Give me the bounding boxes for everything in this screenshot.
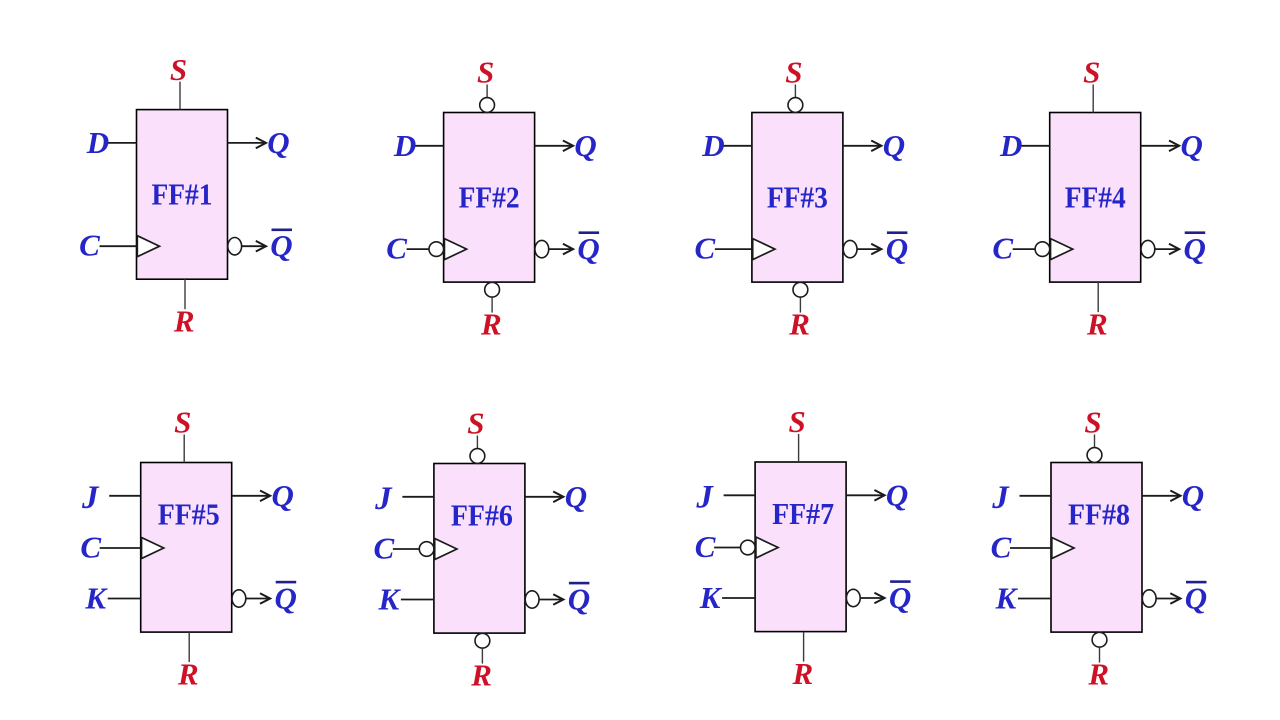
svg-text:Q: Q — [565, 479, 587, 514]
FF#4 Q-bar output bubble — [1141, 240, 1155, 257]
FF#1 C clock input wire — [100, 245, 137, 247]
svg-text:J: J — [374, 481, 393, 517]
FF#7 Q-bar output wire — [860, 597, 883, 599]
FF#1 Q-bar overline — [272, 229, 293, 232]
svg-text:J: J — [991, 480, 1010, 516]
svg-text:Q: Q — [1184, 231, 1206, 266]
flip-flop FF#6 body — [434, 464, 525, 634]
FF#1 Q output arrowhead — [256, 138, 266, 149]
FF#7 S preset input wire — [798, 434, 800, 462]
svg-text:S: S — [788, 404, 805, 439]
svg-text:S: S — [1083, 55, 1100, 90]
FF#5 C clock input wire — [100, 547, 141, 549]
FF#3 S active-low bubble — [788, 98, 803, 113]
FF#3 S preset input wire — [794, 85, 796, 98]
FF#2 Q-bar output arrowhead — [563, 244, 573, 255]
svg-text:S: S — [785, 55, 802, 90]
FF#2 S active-low bubble — [480, 98, 495, 113]
FF#4 Q-bar output arrowhead — [1169, 244, 1179, 255]
FF#6 Q output arrowhead — [553, 492, 563, 503]
FF#2 C clock input wire — [407, 248, 429, 250]
svg-text:S: S — [467, 406, 484, 441]
svg-text:FF#3: FF#3 — [767, 180, 828, 215]
FF#8 S preset input wire — [1094, 435, 1096, 448]
FF#2 R active-low bubble — [485, 282, 500, 297]
svg-text:S: S — [477, 55, 494, 90]
FF#1 Q-bar output bubble — [228, 238, 242, 255]
FF#2 D input wire — [413, 145, 444, 147]
svg-text:J: J — [81, 480, 100, 516]
svg-text:Q: Q — [1182, 478, 1204, 513]
svg-text:R: R — [470, 657, 492, 692]
svg-text:R: R — [791, 656, 813, 691]
svg-text:Q: Q — [568, 582, 590, 617]
FF#3 Q-bar output arrowhead — [871, 244, 881, 255]
svg-text:J: J — [695, 479, 714, 515]
FF#3 R active-low bubble — [793, 282, 808, 297]
FF#7 Q-bar output arrowhead — [874, 593, 884, 604]
FF#2 S preset input wire — [486, 85, 488, 98]
FF#8 S active-low bubble — [1087, 448, 1102, 463]
svg-text:Q: Q — [889, 580, 911, 615]
svg-text:Q: Q — [574, 128, 596, 163]
FF#6 Q-bar output bubble — [525, 591, 539, 608]
FF#4 C clock input wire — [1013, 248, 1035, 250]
FF#3 Q output wire — [843, 145, 880, 147]
FF#4 C active-low bubble — [1035, 242, 1050, 257]
FF#8 Q output arrowhead — [1170, 491, 1180, 502]
FF#8 K input wire — [1018, 598, 1051, 600]
svg-text:C: C — [992, 230, 1013, 265]
FF#2 Q-bar overline — [579, 231, 600, 234]
FF#4 S preset input wire — [1092, 85, 1094, 113]
FF#5 Q-bar output arrowhead — [260, 593, 270, 604]
svg-text:Q: Q — [883, 128, 905, 163]
FF#3 Q-bar overline — [887, 231, 908, 234]
FF#7 C active-low bubble — [741, 540, 756, 555]
FF#1 Q output wire — [228, 142, 265, 144]
FF#4 D input wire — [1019, 145, 1050, 147]
FF#6 Q-bar output wire — [539, 599, 562, 601]
FF#5 S preset input wire — [183, 435, 185, 463]
FF#3 Q-bar output wire — [857, 248, 880, 250]
FF#3 clock edge triangle — [753, 239, 775, 260]
FF#1 clock edge triangle — [137, 236, 159, 257]
svg-text:C: C — [80, 529, 101, 564]
svg-text:Q: Q — [267, 125, 289, 160]
FF#2 Q-bar output wire — [549, 248, 572, 250]
svg-text:C: C — [695, 230, 716, 265]
svg-text:Q: Q — [577, 231, 599, 266]
FF#8 Q-bar output arrowhead — [1170, 593, 1180, 604]
FF#5 R reset input wire — [188, 632, 190, 662]
FF#3 C clock input wire — [715, 248, 752, 250]
FF#2 C active-low bubble — [429, 242, 444, 257]
FF#1 S preset input wire — [179, 82, 181, 110]
svg-text:C: C — [374, 530, 395, 565]
svg-text:D: D — [701, 128, 724, 163]
FF#8 clock edge triangle — [1052, 538, 1074, 559]
FF#7 K input wire — [722, 597, 755, 599]
FF#8 Q-bar output wire — [1156, 598, 1179, 600]
svg-text:D: D — [86, 125, 109, 160]
FF#6 K input wire — [401, 599, 434, 601]
svg-text:R: R — [177, 656, 199, 691]
FF#7 J input wire — [724, 494, 756, 496]
svg-text:Q: Q — [1181, 128, 1203, 163]
svg-text:K: K — [995, 581, 1019, 616]
FF#3 D input wire — [721, 145, 752, 147]
svg-text:Q: Q — [270, 228, 292, 263]
flip-flop FF#2 body — [444, 113, 535, 283]
flip-flop FF#8 body — [1051, 463, 1142, 633]
FF#6 Q-bar overline — [569, 582, 590, 585]
FF#6 S active-low bubble — [470, 449, 485, 464]
svg-text:Q: Q — [272, 478, 294, 513]
svg-text:Q: Q — [275, 581, 297, 616]
svg-text:C: C — [695, 529, 716, 564]
FF#6 S preset input wire — [476, 436, 478, 449]
FF#1 Q-bar output wire — [242, 245, 265, 247]
FF#6 Q output wire — [525, 496, 562, 498]
FF#2 clock edge triangle — [444, 239, 466, 260]
svg-text:FF#6: FF#6 — [451, 498, 513, 533]
svg-text:S: S — [1084, 405, 1101, 440]
svg-text:FF#8: FF#8 — [1068, 497, 1130, 532]
FF#8 R active-low bubble — [1092, 632, 1107, 647]
svg-text:C: C — [386, 230, 407, 265]
FF#5 clock edge triangle — [142, 538, 164, 559]
svg-text:S: S — [170, 52, 187, 87]
FF#5 Q-bar output wire — [246, 598, 269, 600]
FF#6 Q-bar output arrowhead — [553, 594, 563, 605]
FF#2 Q-bar output bubble — [535, 240, 549, 257]
flip-flop FF#5 body — [141, 463, 232, 633]
svg-text:C: C — [79, 228, 100, 263]
svg-text:D: D — [393, 128, 416, 163]
svg-text:C: C — [991, 529, 1012, 564]
svg-text:FF#7: FF#7 — [772, 496, 834, 531]
svg-text:FF#2: FF#2 — [459, 180, 520, 215]
FF#6 clock edge triangle — [435, 539, 457, 560]
FF#2 Q output wire — [535, 145, 572, 147]
FF#8 Q-bar overline — [1186, 581, 1207, 584]
svg-text:FF#4: FF#4 — [1065, 180, 1126, 215]
svg-text:R: R — [173, 304, 195, 339]
flip-flop FF#7 body — [755, 462, 846, 632]
svg-text:FF#5: FF#5 — [158, 497, 220, 532]
FF#8 J input wire — [1020, 495, 1052, 497]
svg-text:Q: Q — [1185, 581, 1207, 616]
svg-text:FF#1: FF#1 — [152, 177, 213, 212]
FF#7 C clock input wire — [714, 547, 740, 549]
FF#5 J input wire — [109, 495, 141, 497]
FF#4 clock edge triangle — [1051, 239, 1073, 260]
FF#7 Q-bar output bubble — [846, 589, 860, 606]
FF#7 Q output wire — [846, 494, 883, 496]
svg-text:R: R — [1086, 306, 1108, 341]
FF#7 R reset input wire — [803, 632, 805, 662]
FF#4 R reset input wire — [1097, 282, 1099, 312]
FF#6 R active-low bubble — [475, 633, 490, 648]
FF#7 Q-bar overline — [890, 580, 911, 583]
svg-text:D: D — [999, 128, 1022, 163]
svg-text:R: R — [480, 306, 502, 341]
svg-text:Q: Q — [886, 231, 908, 266]
FF#6 J input wire — [402, 496, 434, 498]
FF#1 D input wire — [106, 142, 137, 144]
svg-text:K: K — [378, 582, 402, 617]
FF#7 Q output arrowhead — [874, 490, 884, 501]
FF#7 clock edge triangle — [756, 537, 778, 558]
FF#8 Q-bar output bubble — [1142, 590, 1156, 607]
svg-text:K: K — [699, 580, 723, 615]
FF#5 K input wire — [108, 598, 141, 600]
FF#1 R reset input wire — [184, 279, 186, 309]
flip-flop FF#3 body — [752, 113, 843, 283]
FF#3 Q output arrowhead — [871, 141, 881, 152]
FF#6 C active-low bubble — [419, 542, 434, 557]
FF#4 Q output wire — [1141, 145, 1178, 147]
svg-text:K: K — [84, 581, 108, 616]
FF#1 Q-bar output arrowhead — [256, 241, 266, 252]
FF#3 Q-bar output bubble — [843, 240, 857, 257]
FF#8 Q output wire — [1142, 495, 1179, 497]
svg-text:R: R — [1087, 656, 1109, 691]
FF#4 Q-bar output wire — [1155, 248, 1178, 250]
FF#4 Q-bar overline — [1185, 231, 1206, 234]
FF#4 Q output arrowhead — [1169, 141, 1179, 152]
FF#5 Q-bar overline — [276, 581, 297, 584]
FF#6 C clock input wire — [393, 548, 419, 550]
flip-flop FF#1 body — [137, 110, 228, 280]
svg-text:Q: Q — [886, 477, 908, 512]
FF#5 Q output arrowhead — [260, 491, 270, 502]
flip-flop FF#4 body — [1050, 113, 1141, 283]
FF#5 Q-bar output bubble — [232, 590, 246, 607]
svg-text:R: R — [788, 306, 810, 341]
FF#2 Q output arrowhead — [563, 141, 573, 152]
FF#5 Q output wire — [232, 495, 269, 497]
FF#8 C clock input wire — [1010, 547, 1051, 549]
svg-text:S: S — [174, 405, 191, 440]
